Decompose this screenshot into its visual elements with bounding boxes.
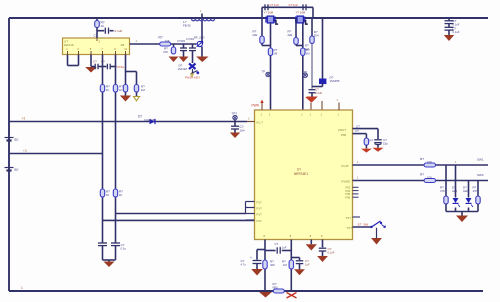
- svg-text:NRF24E1: NRF24E1: [294, 172, 308, 176]
- svg-text:4.7u: 4.7u: [241, 263, 247, 267]
- svg-text:D?: D?: [138, 115, 142, 119]
- svg-text:TX?: TX?: [347, 226, 353, 230]
- svg-text:1N4148: 1N4148: [178, 67, 188, 71]
- svg-text:1K: 1K: [106, 193, 110, 197]
- svg-text:FB-30: FB-30: [183, 24, 191, 28]
- svg-text:1K: 1K: [101, 24, 105, 28]
- svg-text:TP: TP: [304, 70, 308, 74]
- svg-text:R?: R?: [440, 186, 444, 190]
- svg-text:SW: SW: [364, 223, 369, 227]
- svg-text:2K4: 2K4: [314, 33, 319, 37]
- svg-text:C?: C?: [94, 34, 98, 38]
- svg-text:+: +: [250, 256, 252, 260]
- svg-text:0.1uF: 0.1uF: [328, 251, 335, 255]
- svg-text:P1?: P1?: [257, 212, 263, 216]
- svg-text:0R0: 0R0: [273, 286, 279, 290]
- svg-text:U?: U?: [297, 168, 301, 172]
- svg-text:R?: R?: [473, 186, 477, 190]
- svg-text:1: 1: [21, 286, 23, 290]
- svg-text:0.1uF: 0.1uF: [115, 29, 123, 33]
- svg-text:0.1uF: 0.1uF: [280, 245, 287, 249]
- svg-text:15p: 15p: [383, 142, 388, 146]
- svg-text:R?: R?: [282, 260, 286, 264]
- svg-text:22E: 22E: [253, 33, 258, 37]
- svg-text:TP: TP: [262, 70, 266, 74]
- svg-text:B?: B?: [15, 138, 19, 142]
- svg-text:1uF: 1uF: [305, 263, 310, 267]
- svg-text:R?: R?: [159, 36, 163, 40]
- svg-text:104: 104: [240, 129, 245, 133]
- svg-text:1K: 1K: [106, 88, 110, 92]
- svg-text:47K: 47K: [440, 189, 445, 193]
- svg-text:2.2uF: 2.2uF: [315, 91, 322, 95]
- svg-text:TX?: TX?: [346, 216, 352, 220]
- svg-text:10K: 10K: [427, 176, 432, 180]
- svg-text:C?: C?: [305, 259, 309, 263]
- svg-text:P00: P00: [341, 133, 347, 137]
- svg-text:C?104: C?104: [177, 39, 185, 43]
- svg-text:XTAL: XTAL: [117, 65, 125, 69]
- svg-text:+3: +3: [23, 149, 27, 153]
- svg-text:R?: R?: [420, 172, 424, 176]
- svg-text:Y? 16M: Y? 16M: [264, 10, 274, 14]
- svg-text:LED: LED: [452, 189, 457, 193]
- svg-text:P1?: P1?: [257, 206, 263, 210]
- svg-text:1SS355: 1SS355: [330, 79, 340, 83]
- svg-text:R?: R?: [420, 157, 424, 161]
- svg-text:MAX16...: MAX16...: [64, 43, 76, 47]
- svg-text:C?: C?: [241, 259, 245, 263]
- svg-text:PWR: PWR: [252, 104, 260, 108]
- svg-text:C? 1nF: C? 1nF: [270, 3, 280, 7]
- svg-text:R?: R?: [370, 139, 374, 143]
- svg-text:1K: 1K: [119, 193, 123, 197]
- svg-text:P1?: P1?: [257, 200, 263, 204]
- svg-text:R-UP: R-UP: [342, 164, 349, 168]
- svg-text:C?: C?: [93, 60, 97, 64]
- svg-text:0.1u: 0.1u: [121, 247, 127, 251]
- svg-text:47K: 47K: [163, 50, 168, 54]
- svg-text:RF_24G: RF_24G: [194, 36, 205, 40]
- svg-text:PUSH KEY: PUSH KEY: [185, 76, 200, 80]
- svg-text:D?: D?: [452, 186, 456, 190]
- svg-text:S?: S?: [358, 223, 362, 227]
- svg-text:R-MID: R-MID: [342, 180, 350, 184]
- svg-text:XOUT: XOUT: [338, 128, 346, 132]
- svg-text:10K: 10K: [427, 160, 432, 164]
- svg-text:SW1: SW1: [477, 157, 484, 161]
- svg-text:1M: 1M: [141, 88, 146, 92]
- svg-text:A8: A8: [121, 43, 125, 47]
- svg-text:C?: C?: [356, 124, 360, 128]
- svg-text:SW2: SW2: [477, 173, 484, 177]
- svg-text:IN_T: IN_T: [257, 121, 264, 125]
- svg-text:C?: C?: [275, 242, 279, 246]
- svg-text:10K: 10K: [165, 39, 170, 43]
- svg-text:P1?: P1?: [257, 219, 263, 223]
- svg-text:C? 1nF: C? 1nF: [289, 3, 299, 7]
- svg-text:P06: P06: [346, 196, 351, 200]
- svg-text:B?: B?: [15, 168, 19, 172]
- svg-text:LED: LED: [463, 189, 468, 193]
- svg-text:C?: C?: [355, 129, 359, 133]
- svg-text:D?: D?: [463, 186, 467, 190]
- svg-text:R?: R?: [270, 260, 274, 264]
- svg-text:0.1uF: 0.1uF: [453, 30, 460, 34]
- svg-text:D?: D?: [179, 64, 183, 68]
- svg-text:TP?: TP?: [232, 112, 238, 116]
- svg-text:22E: 22E: [288, 33, 293, 37]
- svg-text:1N4148: 1N4148: [144, 118, 155, 122]
- svg-text:46K: 46K: [270, 263, 275, 267]
- svg-text:C?: C?: [328, 247, 332, 251]
- svg-text:+3: +3: [22, 117, 26, 121]
- svg-text:Y? 16M: Y? 16M: [296, 10, 306, 14]
- svg-text:1K: 1K: [119, 88, 123, 92]
- svg-text:47K: 47K: [473, 189, 478, 193]
